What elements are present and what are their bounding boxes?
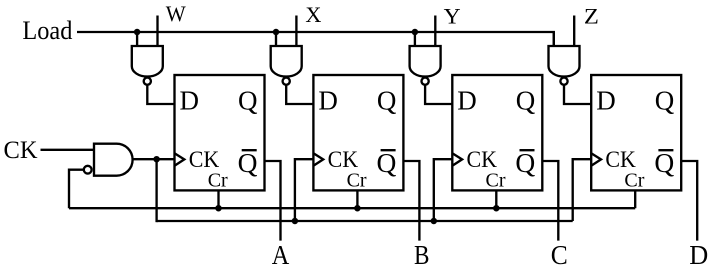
wire clock feed up to U4 (573, 159, 592, 221)
svg-text:Q: Q (377, 85, 397, 115)
wire clock bus horizontal (157, 220, 573, 222)
svg-text:Cr: Cr (624, 170, 644, 192)
wire Z vertical (573, 16, 575, 48)
svg-text:Q: Q (377, 147, 397, 178)
wire Load horizontal (77, 32, 554, 47)
wire CK to gate (41, 149, 95, 151)
svg-text:CK: CK (4, 135, 39, 164)
clock triangle of U3 (452, 153, 462, 166)
svg-text:D: D (596, 85, 616, 115)
clock triangle of U2 (313, 153, 323, 166)
svg-text:D: D (689, 240, 708, 270)
wire CK down to clock bus (155, 159, 157, 222)
nand gate G4 (load gating) (549, 46, 580, 77)
wire Cr pin of U4 (634, 190, 636, 208)
wire clock feed up to U2 (295, 159, 314, 221)
svg-text:Q: Q (238, 85, 258, 115)
svg-text:Z: Z (584, 3, 599, 28)
svg-text:Q: Q (655, 85, 675, 115)
nand gate G2 (load gating) (271, 46, 302, 77)
flip-flop U1 box (175, 75, 265, 190)
inverting bubble on G5 lower input (84, 166, 92, 174)
svg-text:X: X (305, 2, 321, 27)
node Load junction at gate 1 (134, 29, 141, 36)
node CK branch (153, 156, 160, 163)
svg-text:Q: Q (515, 147, 535, 178)
wire Qbar of U1 to output A (265, 161, 281, 241)
wire Cr pin of U1 (217, 190, 219, 208)
wire G3 left input (414, 32, 416, 47)
wire Cr bus horizontal (69, 207, 635, 209)
svg-text:Cr: Cr (486, 170, 506, 192)
wire Qbar of U4 to output D (681, 161, 697, 241)
wire Y vertical (434, 16, 436, 48)
wire G1 left input (136, 32, 138, 47)
wire G2 output to D (286, 85, 313, 104)
svg-text:D: D (180, 85, 200, 115)
node Cr bus junction U3 (493, 205, 500, 212)
wire Qbar of U2 to output B (403, 161, 419, 241)
wire G4 output to D (564, 85, 591, 104)
svg-text:B: B (414, 240, 430, 270)
wire G4 left input (553, 32, 555, 47)
nand gate G3 (load gating) (410, 46, 441, 77)
node clock bus junction U3 (431, 218, 438, 225)
nand gate G1 (load gating) (132, 46, 163, 77)
svg-text:W: W (166, 1, 186, 26)
clock triangle of U1 (175, 153, 185, 166)
node Cr bus junction U1 (215, 205, 222, 212)
node Load junction at gate 3 (412, 29, 419, 36)
node Load junction at gate 2 (273, 29, 280, 36)
wire X vertical (295, 16, 297, 48)
wire G5 feedback to Cr bus (69, 170, 84, 209)
wire W vertical (156, 16, 158, 48)
flip-flop U2 box (313, 75, 403, 190)
svg-text:Cr: Cr (347, 170, 367, 192)
wire clock feed up to U3 (434, 159, 453, 221)
svg-text:D: D (318, 85, 338, 115)
svg-text:A: A (272, 240, 290, 270)
svg-text:Q: Q (516, 85, 536, 115)
wire Cr pin of U2 (356, 190, 358, 208)
svg-text:Q: Q (654, 147, 674, 178)
svg-text:C: C (551, 240, 568, 270)
svg-text:Load: Load (22, 16, 72, 45)
svg-text:Y: Y (444, 3, 461, 28)
flip-flop U3 box (452, 75, 542, 190)
wire Cr pin of U3 (495, 190, 497, 208)
and gate G5 (clock gating) (94, 144, 133, 176)
wire G1 output to D (147, 85, 174, 104)
wire Qbar of U3 to output C (542, 161, 558, 241)
wire G2 left input (275, 32, 277, 47)
node clock bus junction U2 (292, 218, 299, 225)
clock triangle of U4 (591, 153, 601, 166)
wire G3 output to D (425, 85, 452, 104)
wire G5 output to U1 CK (133, 158, 175, 160)
svg-text:Cr: Cr (208, 170, 228, 192)
svg-text:Q: Q (238, 147, 258, 178)
svg-text:D: D (457, 85, 477, 115)
flip-flop U4 box (591, 75, 681, 190)
node Cr bus junction U2 (354, 205, 361, 212)
